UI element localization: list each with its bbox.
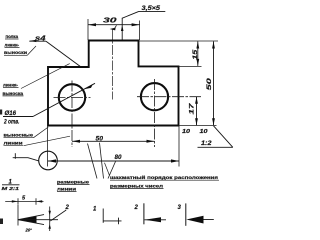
scan edge artifact left middle: [0, 110, 2, 115]
small leader arrow under 30: [110, 28, 116, 31]
svg-text:20°: 20°: [25, 228, 33, 233]
extension line bottom edge to right: [179, 125, 217, 127]
dimension 50 right side: [213, 42, 215, 126]
center line vertical left hole / extension for 50 dim: [71, 81, 73, 148]
dimension 15 right side: [197, 42, 199, 66]
leader line of s4 to part: [46, 41, 80, 66]
link line from detail circle to left: [13, 158, 39, 161]
small arrow up at groove: [121, 18, 123, 40]
leader of liniya-vynoska label: [21, 64, 70, 89]
extension line tab top to right: [139, 40, 219, 42]
leaders of razmernye linii: [88, 144, 98, 179]
extension from 5 dim to arrow tip: [17, 205, 19, 226]
leader of shakhmatny: [105, 163, 110, 176]
svg-text:2: 2: [134, 205, 139, 211]
hole right (Ø16): [141, 83, 168, 110]
hole left (Ø16): [59, 84, 85, 110]
svg-text:50: 50: [206, 77, 213, 90]
leader of 3,5x5: [122, 12, 139, 19]
slope flag 1:2: [214, 126, 233, 148]
part outline: [48, 41, 179, 126]
dimension 30 line on top of tab: [88, 24, 140, 26]
leaders of vynosnye linii: [34, 127, 49, 138]
dimension 17 right side: [196, 97, 198, 126]
center line vertical right hole / extension for 50 dim: [154, 79, 156, 147]
center line horizontal left hole: [54, 96, 91, 98]
detail circle around 80 arrow: [39, 151, 58, 170]
leader of polka label: [28, 46, 37, 55]
extension line left edge down through detail circle: [47, 126, 49, 167]
svg-text:1:2: 1:2: [201, 140, 212, 147]
svg-text:3,5×5: 3,5×5: [142, 5, 161, 12]
center line horizontal right hole / extension for 17 dim: [137, 96, 201, 98]
extension line notch left wall up: [139, 21, 141, 41]
extension line right edge down: [178, 126, 180, 167]
enlarged arrowhead: [18, 216, 37, 223]
extension line tab left edge up: [87, 19, 89, 40]
dimension 50 bottom between hole centers: [72, 140, 155, 142]
svg-text:80: 80: [115, 155, 123, 161]
svg-text:М 2:1: М 2:1: [2, 186, 20, 192]
svg-text:10: 10: [182, 129, 191, 135]
svg-text:17: 17: [189, 103, 196, 115]
svg-text:50: 50: [96, 136, 104, 142]
svg-text:2 отв.: 2 отв.: [3, 120, 20, 126]
leader of O16 through left hole: [33, 83, 95, 116]
svg-text:10: 10: [200, 129, 209, 135]
svg-text:2: 2: [65, 205, 70, 211]
arrow width dimension: [49, 207, 51, 232]
center line vertical of part through tab: [112, 30, 114, 100]
scan edge artifact left bottom: [0, 219, 3, 225]
svg-text:15: 15: [193, 49, 199, 60]
svg-text:30: 30: [103, 18, 117, 25]
extension line right shoulder to right: [179, 65, 202, 67]
dimension 80 bottom overall: [48, 160, 179, 162]
